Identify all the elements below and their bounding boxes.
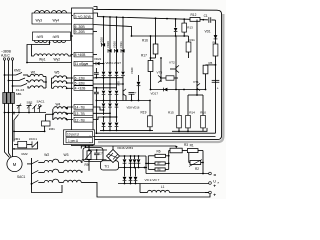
label Tg1	[104, 164, 109, 168]
resistor R15	[177, 90, 182, 133]
winding Wy1 coils	[34, 54, 68, 56]
winding W5 row1	[52, 76, 74, 79]
wire mid H36	[131, 35, 185, 37]
resistor R8	[148, 168, 168, 172]
svg-text:A,B,C: A,B,C	[1, 54, 10, 58]
label R3	[184, 143, 188, 147]
diode VD47 upper	[129, 156, 133, 168]
exciter unit box left	[83, 148, 103, 162]
winding W2 row3	[38, 179, 63, 182]
wire Wy12 right end to strip	[68, 55, 73, 57]
label KM1 coil	[49, 127, 55, 131]
svg-text:5 -32В: 5 -32В	[75, 81, 86, 85]
diode matrix lower col0	[102, 91, 106, 102]
diode VD8-16 row2 col0	[102, 101, 106, 116]
svg-text:W4: W4	[56, 103, 61, 107]
label VD28-VD31	[100, 37, 124, 48]
diode matrix lower col2	[115, 91, 119, 102]
wire top jog	[94, 7, 98, 10]
terminal strip cell 14	[74, 104, 93, 109]
label R11	[190, 38, 196, 42]
label R10	[200, 110, 206, 114]
resistor R4	[213, 44, 218, 56]
terminal out 1	[209, 172, 217, 177]
contact KM2 phase B	[8, 78, 28, 81]
wire fuse B down	[9, 104, 12, 157]
svg-text:VT2: VT2	[169, 61, 175, 65]
winding W2 row2	[38, 169, 63, 172]
terminal C	[11, 58, 13, 60]
svg-text:КМ1: КМ1	[49, 127, 55, 131]
svg-text:6 -12В: 6 -12В	[75, 76, 86, 80]
resistor R13	[182, 19, 187, 36]
diode VD49	[137, 75, 141, 101]
contact KM2 phase C	[12, 84, 27, 87]
terminal strip body	[72, 8, 94, 146]
diode VD30 column	[115, 16, 119, 61]
contact SAC1 sel	[38, 105, 43, 113]
label F1-F3	[16, 88, 25, 92]
label VD8-VD16	[127, 105, 140, 109]
svg-text:VD17: VD17	[151, 92, 159, 96]
svg-text:3 +(0-30)В: 3 +(0-30)В	[75, 15, 92, 19]
wire R6 left bus	[145, 156, 149, 170]
svg-text:11 обдув: 11 обдув	[75, 62, 89, 66]
switch SAC1 bar	[31, 158, 33, 190]
zener VD18	[174, 19, 178, 36]
diode VD31 column	[121, 16, 125, 61]
wire R1 R2 link	[189, 153, 190, 163]
svg-text:1 рег.U: 1 рег.U	[68, 139, 79, 143]
label C7	[99, 152, 103, 156]
label VD2-VD7	[145, 178, 160, 182]
wire exciter internal top	[88, 149, 107, 151]
wire SAC1 bottom	[32, 185, 63, 193]
svg-text:R19: R19	[141, 111, 147, 115]
label Uya	[213, 180, 219, 185]
wire W4 left bus	[52, 109, 54, 120]
wire col126 down	[125, 96, 127, 101]
winding box W'5 W'6	[33, 32, 71, 41]
diode matrix upper col3	[121, 61, 125, 90]
label W'5	[37, 35, 44, 39]
push button SB1	[17, 104, 22, 113]
wire zener R13 join	[183, 35, 185, 37]
fuse F1	[3, 93, 7, 104]
svg-text:Wy1: Wy1	[39, 58, 46, 62]
diode bridge diamond VD44	[107, 150, 120, 163]
resistor R6	[148, 154, 168, 157]
capacitor C2	[212, 80, 220, 90]
terminal strip cell 13	[74, 111, 93, 116]
wire row12 out	[93, 116, 117, 119]
winding W3 row2	[64, 170, 82, 172]
winding W1 label	[31, 70, 36, 74]
svg-text:KM2: KM2	[14, 69, 21, 73]
diode VD2 lower	[123, 168, 127, 184]
svg-text:Wy4: Wy4	[53, 19, 60, 23]
label VD49	[130, 67, 134, 74]
wire fuse A down	[5, 104, 10, 158]
wire R16 R17 link	[150, 57, 156, 59]
svg-text:VD24-VD27: VD24-VD27	[106, 61, 122, 65]
wire lower trio bottom	[100, 129, 153, 131]
terminal strip cell 8	[74, 52, 93, 57]
diode VD46 upper	[123, 156, 127, 168]
transistor VT3	[158, 57, 162, 83]
regulator block border	[94, 9, 222, 139]
resistor R7	[148, 162, 168, 166]
push button SB2	[27, 104, 32, 113]
svg-text:+: +	[217, 86, 219, 90]
svg-text:10 рег.U: 10 рег.U	[67, 133, 80, 137]
resistor R11	[184, 36, 191, 58]
winding W4 row2	[54, 112, 73, 114]
svg-text:SB2: SB2	[27, 101, 33, 105]
svg-text:Wy2: Wy2	[54, 58, 61, 62]
svg-text:R9: R9	[85, 163, 89, 167]
motor M label	[13, 162, 17, 167]
wire Wy12 lower link	[26, 62, 71, 64]
terminal strip cell 9	[74, 29, 93, 34]
svg-text:W5: W5	[54, 70, 59, 74]
wire W1 right bus	[45, 77, 47, 89]
terminal strip cell 1 рег.Uя	[66, 138, 93, 144]
diode VD49 upper	[137, 156, 141, 168]
wire phase B	[8, 60, 10, 104]
terminal strip cell 5	[74, 81, 93, 86]
wire strip row8 out	[94, 54, 98, 56]
wire exciter left link	[82, 159, 107, 171]
label Wy3	[36, 19, 43, 23]
wire matrix bottom bus	[96, 100, 150, 102]
terminal strip cell 4	[74, 86, 93, 91]
svg-text:13 -7В: 13 -7В	[75, 112, 86, 116]
terminal strip cell 12	[74, 117, 93, 122]
winding W1 row2	[28, 80, 47, 83]
svg-text:R14: R14	[189, 110, 195, 114]
label R9	[85, 163, 89, 167]
svg-text:VT1: VT1	[193, 80, 199, 84]
label Wy1	[39, 58, 46, 62]
potentiometer R3	[170, 146, 182, 153]
winding W'5 bottom coils	[35, 41, 48, 43]
diode VD8-16 row2 col1	[108, 101, 112, 118]
wire relay bottom bus	[13, 143, 37, 150]
motor M circle	[7, 156, 22, 171]
wire matrix h1	[93, 77, 123, 79]
resistor R18	[160, 76, 178, 80]
wire bridge bottom bus	[118, 183, 210, 185]
svg-text:VD22: VD22	[94, 57, 102, 61]
inductor L1	[140, 184, 210, 193]
svg-text:•W′5: •W′5	[37, 35, 44, 39]
wire res bottom join	[172, 128, 207, 131]
diode VD1	[214, 35, 218, 39]
contact KM2 phase A	[4, 73, 28, 76]
label R4	[213, 41, 217, 45]
label R2	[195, 167, 199, 171]
relay coil KM2	[14, 141, 27, 147]
resistor R19	[148, 100, 153, 132]
winding W'6 bottom coils	[53, 41, 66, 43]
svg-text:C1: C1	[204, 14, 208, 18]
potentiometer R9	[85, 151, 92, 160]
label SB1	[16, 92, 22, 96]
terminal out 2	[209, 182, 217, 190]
svg-text:VD1: VD1	[205, 30, 211, 34]
wire bridge mid bus	[119, 167, 148, 169]
wire matrix h2	[93, 83, 123, 85]
svg-text:М: М	[13, 162, 17, 167]
svg-text:W3: W3	[64, 153, 69, 157]
wire bus bottom2	[93, 136, 216, 138]
wire phase C	[12, 60, 14, 104]
winding Wy3 coils	[35, 11, 50, 13]
wire row14 out	[93, 107, 104, 111]
svg-text:R2: R2	[195, 167, 199, 171]
capacitor C3 plus	[129, 91, 137, 102]
svg-text:8 +40В: 8 +40В	[75, 53, 87, 57]
transistor VT1	[197, 20, 200, 91]
svg-text:R13: R13	[187, 25, 193, 29]
wire phase A	[4, 60, 6, 104]
winding W1 row1	[28, 74, 46, 76]
winding W5 row2	[52, 81, 74, 84]
label W'6	[53, 35, 60, 39]
label VD22	[94, 57, 102, 61]
regulator block border shadow	[98, 14, 223, 142]
wire VT1 down	[188, 90, 203, 96]
svg-text:VD29: VD29	[106, 41, 110, 48]
label R14	[189, 110, 195, 114]
svg-text:VT3: VT3	[157, 71, 163, 75]
wire exciter top line	[81, 145, 176, 150]
winding W5 row3	[52, 86, 74, 89]
svg-text:14 -7В: 14 -7В	[75, 105, 86, 109]
label SAC1	[17, 175, 26, 179]
label KM1 bottom	[14, 137, 20, 141]
terminal strip cell 11	[74, 61, 93, 66]
contact KM2 aux2	[33, 105, 37, 113]
svg-text:Тг1: Тг1	[104, 164, 109, 168]
svg-text:R12: R12	[191, 13, 197, 17]
svg-text:SAC1: SAC1	[37, 100, 45, 104]
diode VD3 lower	[129, 168, 133, 184]
svg-text:R3: R3	[184, 143, 188, 147]
terminal strip cell 6	[74, 24, 93, 29]
wire R6 right bus	[168, 151, 170, 170]
label ~380V	[1, 49, 12, 53]
winding W4 row1	[54, 107, 73, 109]
label R19	[141, 111, 147, 115]
svg-text:R15: R15	[168, 110, 174, 114]
svg-text:W1: W1	[31, 70, 36, 74]
diode matrix upper col2	[115, 61, 119, 90]
label VT2	[169, 61, 175, 65]
wire KM1 to left	[13, 131, 44, 133]
wire R3R1 top	[169, 150, 188, 152]
diode VD4 lower	[134, 168, 138, 184]
svg-text:R17: R17	[141, 54, 147, 58]
capacitor bank c1	[94, 68, 99, 79]
winding W2 row1	[38, 159, 63, 162]
svg-text:U: U	[213, 180, 216, 184]
diode matrix upper col0	[102, 61, 106, 90]
svg-text:VD30: VD30	[113, 41, 117, 48]
fuse F3	[11, 93, 15, 104]
svg-text:+: +	[135, 91, 137, 95]
diode VD17 sym	[164, 88, 168, 92]
svg-text:VD31: VD31	[119, 41, 123, 48]
svg-text:С7: С7	[99, 152, 103, 156]
label KCC1	[29, 137, 37, 141]
wire R1 right	[198, 151, 204, 175]
svg-text:R6: R6	[157, 150, 161, 154]
contact KCC1	[32, 141, 38, 147]
wire bridge top bus	[113, 146, 146, 157]
switch SAC1 arm2	[32, 170, 39, 174]
diode VD31 lower trio	[108, 117, 112, 131]
winding Wy4 coils	[52, 11, 67, 13]
wire right rail	[215, 20, 217, 133]
switch SAC1 arm3	[31, 180, 39, 184]
label C1	[204, 14, 208, 18]
diode VD30 lower trio	[102, 117, 106, 131]
svg-text:W2: W2	[44, 153, 49, 157]
wire fuse C down	[12, 104, 14, 157]
svg-text:VD8-VD16: VD8-VD16	[127, 105, 140, 109]
svg-text:•W′5: •W′5	[53, 35, 60, 39]
svg-text:VT8: VT8	[117, 81, 121, 86]
label W2	[44, 153, 49, 157]
label Wy2	[54, 58, 61, 62]
svg-text:4 +32В: 4 +32В	[75, 87, 87, 91]
diode VD29 column	[108, 16, 112, 61]
resistor R10	[201, 95, 206, 131]
label KM2 coil	[22, 152, 28, 156]
wire Wy34 box to strip	[72, 15, 74, 17]
label R12	[191, 13, 197, 17]
svg-text:SB1: SB1	[16, 92, 22, 96]
wire dropper R16	[155, 18, 157, 44]
label W4	[56, 103, 61, 107]
label VD17	[151, 92, 159, 96]
resistor R5	[203, 65, 215, 91]
label VD46-VD53	[117, 146, 133, 150]
terminal B	[7, 58, 9, 60]
diode matrix upper col1	[108, 61, 112, 90]
svg-text:КМ2: КМ2	[22, 152, 28, 156]
wire W5 left bus	[51, 78, 53, 88]
wire row13 out	[93, 112, 111, 114]
resistor R17	[148, 35, 153, 75]
svg-text:КМ1: КМ1	[14, 137, 20, 141]
wire bus B	[94, 13, 216, 21]
label R15	[168, 110, 174, 114]
svg-text:VD49: VD49	[130, 67, 134, 74]
label R17	[141, 54, 147, 58]
diode VD22 sym	[94, 62, 105, 66]
svg-text:R1: R1	[190, 143, 194, 147]
winding W4 row3	[54, 118, 73, 120]
svg-text:Wy3: Wy3	[36, 19, 43, 23]
wire zone links	[150, 72, 177, 90]
fuse F2	[7, 93, 11, 104]
label A B C	[1, 54, 10, 58]
capacitor C7	[94, 150, 99, 160]
resistor R14	[186, 95, 191, 132]
wire strip row9 out	[94, 25, 132, 37]
winding W5 label	[54, 70, 59, 74]
terminal strip cell 3	[74, 13, 93, 19]
svg-text:+: +	[213, 185, 216, 190]
wire control bus	[4, 112, 46, 114]
resistor R1	[187, 149, 198, 153]
svg-text:R11: R11	[190, 38, 196, 42]
terminal strip cell 10 рег.Uя	[66, 131, 93, 137]
wire W'56 to strip row	[71, 35, 74, 37]
terminal strip sub-box reg Uя	[64, 130, 95, 145]
diode VD8-16 row2 col2	[115, 101, 119, 118]
label SB2	[27, 101, 33, 105]
winding box Wy3 Wy4	[32, 13, 72, 24]
diode VD48 upper	[133, 156, 137, 168]
diode matrix lower col1	[108, 91, 112, 102]
svg-text:VD28: VD28	[100, 37, 104, 44]
label VD1	[205, 30, 211, 34]
wire W'5 center tap	[27, 41, 50, 63]
label R16	[142, 39, 148, 43]
transistor VT2	[170, 36, 179, 73]
wire mid right h	[151, 89, 206, 91]
winding W1 row3	[28, 86, 46, 88]
transistor VT8	[123, 89, 126, 101]
label VT3	[157, 71, 163, 75]
svg-text:КСС1: КСС1	[29, 137, 37, 141]
label KM2 contacts	[14, 69, 21, 73]
label R1	[190, 143, 194, 147]
wire Wy12 left end	[32, 45, 35, 57]
diode VD28 column	[102, 16, 106, 61]
wire matrix h3	[93, 87, 117, 89]
label VT1	[193, 80, 199, 84]
terminal out 3	[209, 191, 217, 198]
label R13	[187, 25, 193, 29]
label R5	[209, 61, 213, 65]
svg-text:VD 2-VD 7: VD 2-VD 7	[145, 178, 160, 182]
svg-text:+: +	[213, 194, 216, 199]
wire lower trio bus top	[103, 116, 117, 118]
winding W3 row3	[64, 180, 210, 197]
svg-text:SAC1: SAC1	[17, 175, 26, 179]
resistor R16	[153, 44, 158, 58]
label W3	[64, 153, 69, 157]
svg-text:6 -30В: 6 -30В	[75, 25, 86, 29]
wire W4 tap to KM1	[46, 114, 53, 121]
wire bridge mid to right	[145, 156, 210, 174]
svg-text:VD46-VD53: VD46-VD53	[117, 146, 133, 150]
wire out3 stub	[205, 192, 209, 194]
resistor R12	[190, 18, 200, 22]
winding W3 row1	[64, 160, 82, 163]
label R6	[157, 150, 161, 154]
capacitor C1	[208, 17, 212, 23]
contact KM1 aux	[13, 112, 18, 142]
label SAC1 top	[37, 100, 45, 104]
capacitor bank c2	[94, 87, 99, 134]
svg-text:L1: L1	[161, 185, 165, 189]
